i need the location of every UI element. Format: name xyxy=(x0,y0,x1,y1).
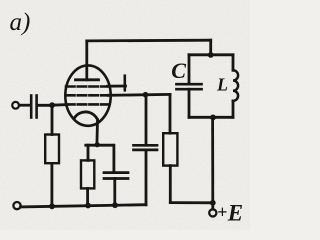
wire anode lead up xyxy=(85,41,88,80)
node R2-rail junction xyxy=(85,203,91,209)
wire screen resistor lead down xyxy=(169,94,172,133)
wire tee to cathode resistor xyxy=(87,145,90,160)
node C2-rail junction xyxy=(112,202,118,208)
coupling capacitor C1 xyxy=(31,96,36,118)
capacitor C2 (cathode bypass) xyxy=(104,173,128,179)
resistor R3 (screen dropping) xyxy=(163,133,177,165)
suppressor termination bar xyxy=(124,76,127,91)
wire R3 to +E rail xyxy=(169,166,172,203)
tube V1 grid 3 (suppressor, dashed) xyxy=(66,85,109,88)
node R1-rail junction xyxy=(49,203,55,209)
node cathode tee xyxy=(95,142,100,147)
wire R1 to ground rail xyxy=(51,164,54,207)
wire junction down to C3 xyxy=(145,95,148,146)
wire tank bottom to +E junction xyxy=(211,117,214,203)
wire tank L branch upper lead xyxy=(232,55,235,71)
wire cathode lead down xyxy=(96,120,99,145)
wire screen grid to dropping resistor xyxy=(108,93,170,97)
wire anode top horizontal to tank xyxy=(87,39,211,43)
wire tank feed down xyxy=(209,40,212,55)
wire tank L branch lower lead xyxy=(232,101,235,117)
node grid junction xyxy=(49,102,55,108)
svg-text:+: + xyxy=(217,202,227,222)
wire input terminal to coupling capacitor xyxy=(19,104,30,107)
wire +E junction to terminal xyxy=(211,203,214,209)
inductor L (tank coil) xyxy=(233,70,238,101)
wire cathode tee horizontal xyxy=(86,144,114,147)
capacitor C (tank) xyxy=(177,84,202,89)
wire +E rail (right segment) xyxy=(170,201,213,204)
svg-text:C: C xyxy=(171,58,186,83)
tube V1 cathode arc xyxy=(74,112,97,120)
node tank top junction xyxy=(208,52,214,58)
wire C3 to ground rail xyxy=(145,150,148,205)
wire tee to cathode capacitor xyxy=(113,145,116,172)
resistor R1 (grid leak) xyxy=(45,135,59,164)
wire suppressor lead right xyxy=(108,85,126,88)
svg-text:а): а) xyxy=(10,9,31,36)
tube V1 grid 2 (screen, dashed) xyxy=(66,94,109,97)
node screen bypass junction xyxy=(143,92,149,98)
wire R2 to rail xyxy=(86,188,89,205)
node +E junction xyxy=(210,200,216,206)
wire ground rail (left segment) xyxy=(21,205,146,207)
capacitor C3 (screen bypass) xyxy=(134,145,158,150)
wire tank top rail xyxy=(189,53,233,56)
tube V1 grid 1 (control, dashed) xyxy=(66,103,109,106)
tube V1 envelope xyxy=(65,65,110,125)
wire coupling capacitor to grid node xyxy=(38,104,52,107)
wire grid node down to R1 xyxy=(51,105,54,134)
wire C2 to rail xyxy=(113,179,116,206)
node tank bottom junction xyxy=(210,115,216,121)
wire grid node to tube control grid xyxy=(52,103,67,106)
+E terminal (open circle) xyxy=(209,209,216,216)
resistor R2 (cathode) xyxy=(81,160,94,188)
wire tank C branch upper lead xyxy=(188,55,191,84)
tube V1 anode plate xyxy=(76,78,99,81)
input terminal (open circle, grid input) xyxy=(12,102,19,109)
svg-text:E: E xyxy=(227,201,243,226)
wire tank C branch lower lead xyxy=(188,89,191,117)
wire tank bottom rail xyxy=(189,116,233,119)
svg-text:L: L xyxy=(216,75,228,95)
ground terminal (open circle, bottom left) xyxy=(13,202,20,209)
